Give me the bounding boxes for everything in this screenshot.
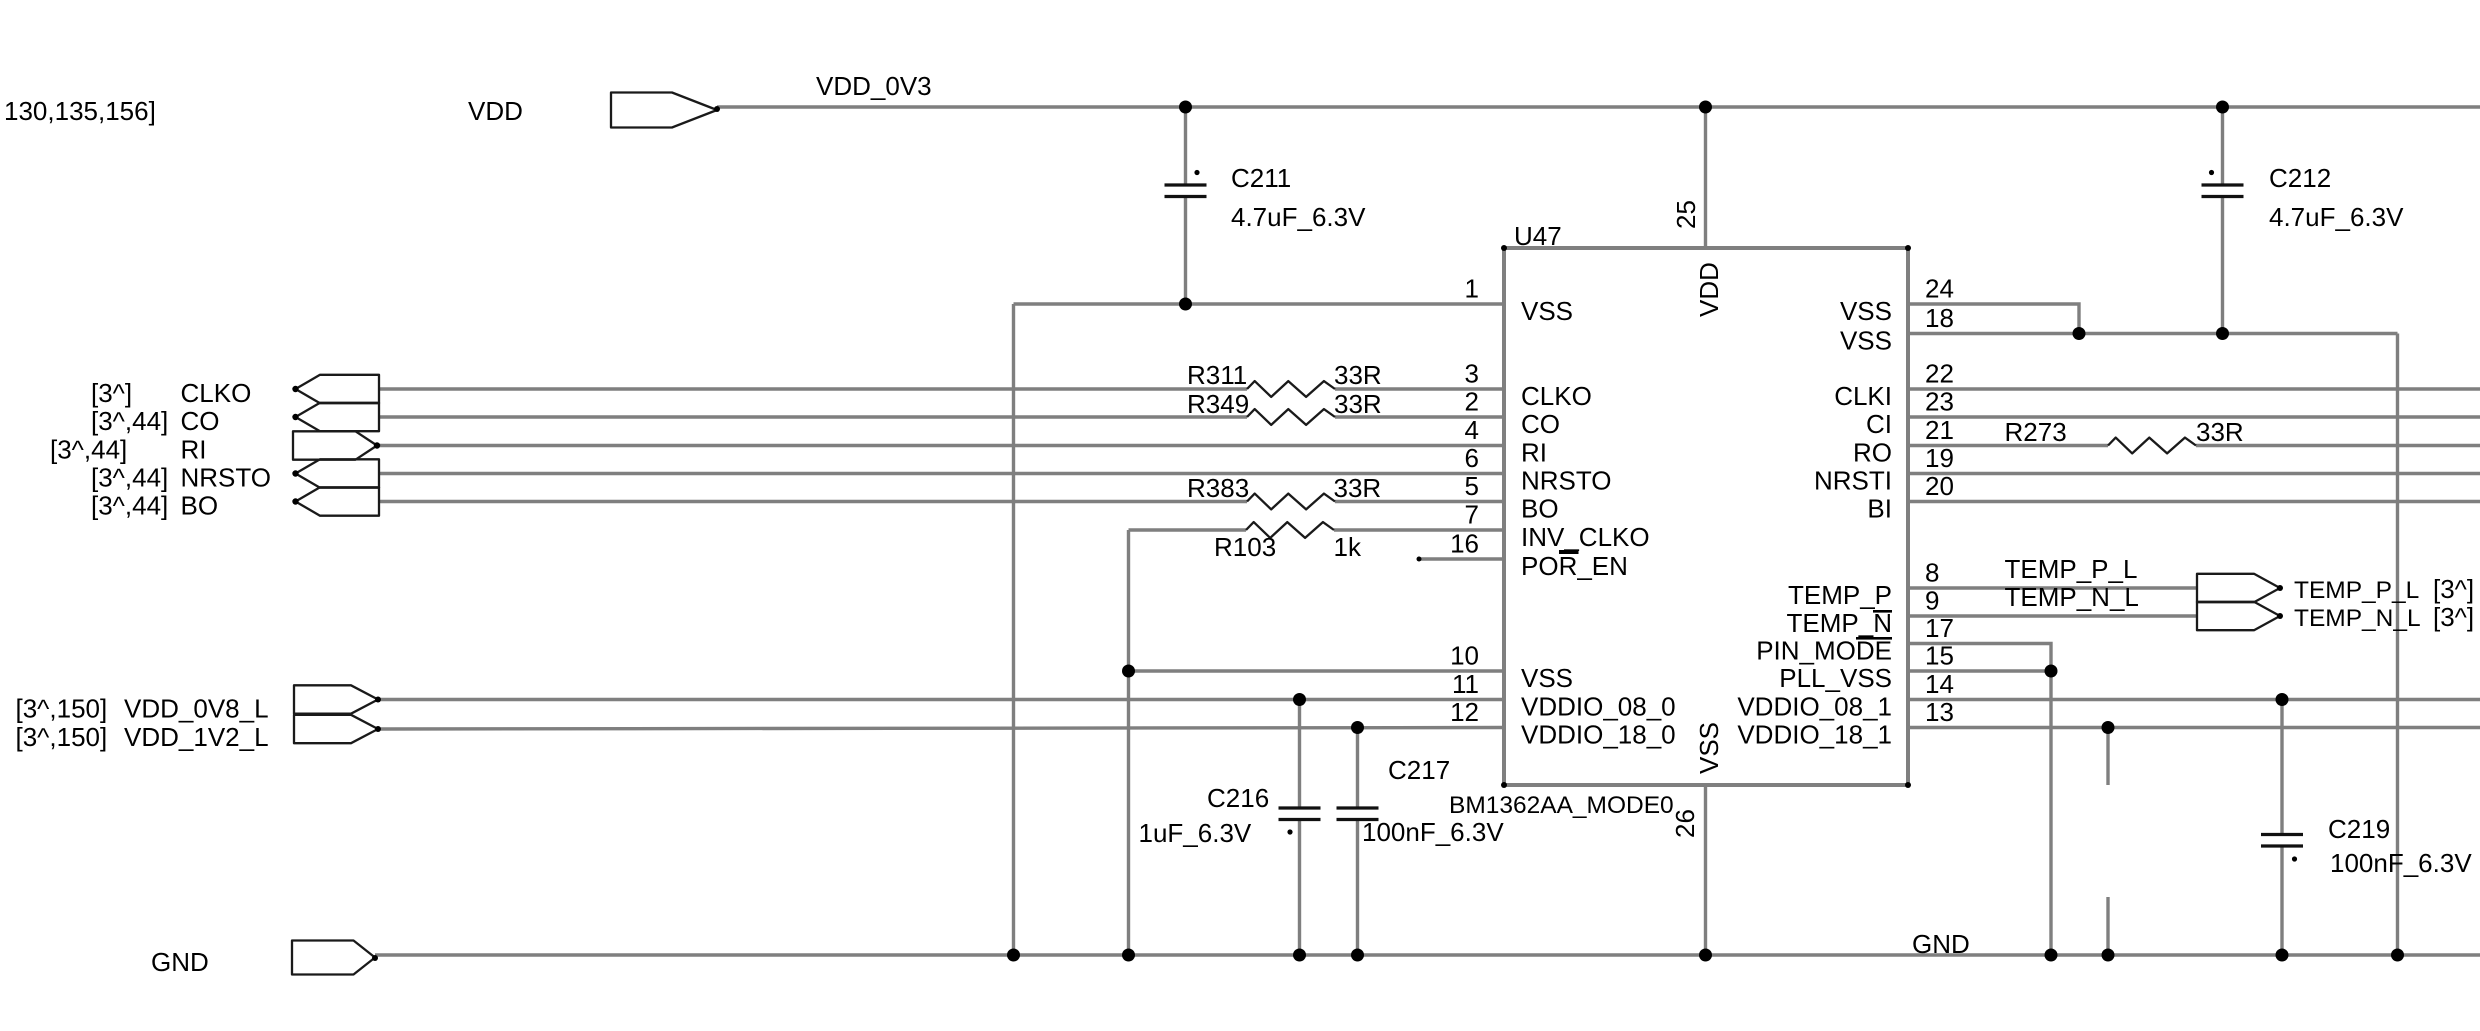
junction GND x2051 [2045, 949, 2058, 962]
polarity dot C211 [1194, 170, 1199, 175]
svg-text:R103: R103 [1214, 532, 1276, 562]
svg-text:33R: 33R [1334, 360, 1382, 390]
wire R103 to pin7 [1334, 528, 1504, 531]
wire VSS vertical from pin1 [1012, 304, 1015, 955]
svg-text:20: 20 [1925, 471, 1954, 501]
overline PIN_MODE DE [1856, 637, 1892, 640]
wire R311 to pin3 [1335, 387, 1504, 390]
svg-text:18: 18 [1925, 303, 1954, 333]
svg-text:5: 5 [1465, 471, 1479, 501]
svg-text:BI: BI [1867, 494, 1892, 524]
junction GND x2108 [2102, 949, 2115, 962]
junction C212 bottom [2216, 327, 2229, 340]
wire VDD_0V8_L to pin11 [378, 698, 1504, 701]
svg-text:VDD_0V3: VDD_0V3 [816, 71, 932, 101]
svg-text:VDDIO_18_1: VDDIO_18_1 [1737, 720, 1892, 750]
port TEMP_N_L arrow [2197, 602, 2280, 630]
port CLKO arrow [296, 375, 380, 403]
junction C212 top [2216, 101, 2229, 114]
junction C217 top [1351, 721, 1364, 734]
svg-text:RI: RI [181, 435, 207, 465]
tip dot TEMP_N_L [2277, 613, 2283, 619]
wire pin13 VDDIO_18_1 [1908, 726, 2480, 729]
svg-text:[3^]: [3^] [91, 378, 132, 408]
resistor R311 [1247, 381, 1335, 397]
junction GND C217 [1351, 949, 1364, 962]
svg-text:TEMP_N_L: TEMP_N_L [2005, 582, 2139, 612]
svg-text:TEMP_P: TEMP_P [1788, 580, 1892, 610]
junction GND x1128 [1122, 949, 1135, 962]
wire CO to R349 [379, 415, 1247, 418]
junction pin24 jog on VSS row [2073, 327, 2086, 340]
capacitor C219 plates [2261, 833, 2303, 836]
svg-text:[3^,150]: [3^,150] [16, 722, 108, 752]
junction GND pin26 [1699, 949, 1712, 962]
svg-text:GND: GND [151, 947, 209, 977]
svg-text:TEMP_N_L: TEMP_N_L [2294, 605, 2421, 632]
wire pin22 CLKI [1908, 387, 2480, 390]
wire VSS right vertical [2396, 334, 2399, 956]
wire pin18 VSS row [1908, 332, 2398, 335]
polarity dot C219 [2292, 856, 2297, 861]
svg-text:NRSTI: NRSTI [1814, 466, 1892, 496]
svg-text:23: 23 [1925, 387, 1954, 417]
svg-text:PLL_VSS: PLL_VSS [1779, 663, 1892, 693]
svg-text:8: 8 [1925, 558, 1939, 588]
svg-text:[3^,44]: [3^,44] [91, 491, 168, 521]
svg-text:10: 10 [1450, 641, 1479, 671]
junction GND right corner [2391, 949, 2404, 962]
svg-text:R383: R383 [1187, 473, 1249, 503]
port GND arrow [292, 941, 375, 975]
wire POR_EN stub pin16 [1418, 557, 1504, 560]
junction C216 top [1293, 693, 1306, 706]
svg-text:VDD: VDD [1694, 262, 1724, 317]
svg-text:24: 24 [1925, 274, 1954, 304]
tip dot GND [372, 955, 378, 961]
svg-text:R273: R273 [2005, 417, 2067, 447]
svg-text:13: 13 [1925, 697, 1954, 727]
svg-text:2: 2 [1465, 387, 1479, 417]
wire C212 body vertical [2221, 107, 2224, 185]
svg-text:C211: C211 [1231, 163, 1291, 193]
wire R383 to pin5 [1335, 500, 1504, 503]
wire C211 body vertical [1184, 107, 1187, 185]
svg-text:VDD_0V8_L: VDD_0V8_L [124, 694, 269, 724]
wire C217 body vertical [1356, 728, 1359, 809]
junction C211 bottom on VSS row [1179, 298, 1192, 311]
svg-text:100nF_6.3V: 100nF_6.3V [2330, 848, 2472, 878]
svg-text:C212: C212 [2269, 163, 2331, 193]
svg-text:VSS: VSS [1694, 722, 1724, 774]
svg-text:[3^,44]: [3^,44] [50, 435, 127, 465]
svg-text:19: 19 [1925, 443, 1954, 473]
port TEMP_P_L arrow [2197, 574, 2280, 602]
wire INV_CLKO corner to R103 [1129, 528, 1247, 531]
wire pin20 BI [1908, 500, 2480, 503]
wire pin1 VSS row [1014, 302, 1505, 305]
wire pin24 VSS jog [1908, 304, 2079, 334]
svg-text:14: 14 [1925, 669, 1954, 699]
svg-text:12: 12 [1450, 697, 1479, 727]
svg-text:CLKO: CLKO [181, 378, 252, 408]
svg-text:VSS: VSS [1840, 326, 1892, 356]
svg-text:VDDIO_08_0: VDDIO_08_0 [1521, 692, 1676, 722]
port VDD arrow [611, 93, 717, 128]
wire C219 body vertical [2280, 700, 2283, 835]
svg-text:TEMP_P_L: TEMP_P_L [2294, 577, 2419, 604]
svg-text:21: 21 [1925, 415, 1954, 445]
tip dot VDD_0V8_L [375, 697, 381, 703]
wire VDD_0V3 net [717, 105, 2480, 108]
port NRSTO arrow [296, 459, 380, 487]
wire RI to pin4 [377, 444, 1504, 447]
svg-text:CLKI: CLKI [1834, 381, 1892, 411]
tip dot BO [292, 498, 298, 504]
wire broken vertical upper [2106, 728, 2109, 786]
wire NRSTO to pin6 [379, 472, 1504, 475]
polarity dot C216 [1287, 829, 1292, 834]
tip dot CO [292, 414, 298, 420]
svg-text:1uF_6.3V: 1uF_6.3V [1139, 818, 1252, 848]
tip dot RI [374, 442, 380, 448]
junction GND x1013 [1007, 949, 1020, 962]
svg-text:RO: RO [1853, 438, 1892, 468]
junction pin17 jog on PLL_VSS row [2045, 665, 2058, 678]
svg-text:NRSTO: NRSTO [181, 463, 272, 493]
svg-text:6: 6 [1465, 443, 1479, 473]
junction GND C219 [2276, 949, 2289, 962]
svg-text:PIN_MODE: PIN_MODE [1756, 636, 1892, 666]
wire VDD_1V2_L to pin12 [378, 728, 1504, 730]
svg-text:[3^,44]: [3^,44] [91, 406, 168, 436]
wire GND net [375, 953, 2480, 956]
svg-text:BM1362AA_MODE0: BM1362AA_MODE0 [1449, 792, 1674, 819]
svg-text:130,135,156]: 130,135,156] [4, 96, 156, 126]
wire C216 body vertical [1298, 700, 1301, 809]
tip dot VDD [714, 106, 720, 112]
svg-text:16: 16 [1450, 529, 1479, 559]
svg-text:3: 3 [1465, 359, 1479, 389]
svg-text:1: 1 [1465, 274, 1479, 304]
junction broken vertical top [2102, 721, 2115, 734]
IC U47 body [1504, 248, 1908, 785]
svg-text:BO: BO [1521, 494, 1559, 524]
tip dot TEMP_P_L [2277, 585, 2283, 591]
svg-text:11: 11 [1452, 669, 1479, 699]
resistor R103 [1246, 522, 1334, 538]
svg-text:C216: C216 [1207, 783, 1269, 813]
overline TEMP_N N [1873, 610, 1892, 613]
svg-text:CLKO: CLKO [1521, 381, 1592, 411]
wire pin23 CI [1908, 415, 2480, 418]
port RI arrow [293, 431, 377, 459]
resistor R383 [1247, 494, 1335, 510]
port VDD_0V8_L arrow [294, 685, 378, 713]
svg-text:VDD_1V2_L: VDD_1V2_L [124, 722, 269, 752]
svg-text:U47: U47 [1514, 221, 1562, 251]
svg-text:[3^]: [3^] [2433, 602, 2474, 632]
svg-text:VSS: VSS [1521, 296, 1573, 326]
svg-text:[3^]: [3^] [2433, 574, 2474, 604]
wire R273 right [2196, 444, 2480, 447]
svg-text:17: 17 [1925, 613, 1954, 643]
svg-text:1k: 1k [1334, 532, 1362, 562]
svg-text:C219: C219 [2328, 814, 2390, 844]
svg-text:CO: CO [181, 406, 220, 436]
svg-text:7: 7 [1465, 500, 1479, 530]
tip dot VDD_1V2_L [375, 726, 381, 732]
wire pin21 RO to R273 [1908, 444, 2108, 447]
wire pin8 TEMP_P [1908, 586, 2197, 589]
svg-text:22: 22 [1925, 359, 1954, 389]
svg-text:4: 4 [1465, 415, 1479, 445]
pin 26 wire (VSS) [1704, 785, 1707, 955]
capacitor C212 plates [2202, 183, 2244, 186]
junction C211 top [1179, 101, 1192, 114]
junction GND C216 [1293, 949, 1306, 962]
port VDD_1V2_L arrow [294, 715, 378, 743]
svg-text:VDDIO_18_0: VDDIO_18_0 [1521, 720, 1676, 750]
svg-text:25: 25 [1671, 200, 1701, 229]
capacitor C217 plates [1337, 806, 1379, 809]
svg-text:33R: 33R [1334, 389, 1382, 419]
wire x2051 vertical to GND [2049, 671, 2052, 955]
svg-text:[3^,150]: [3^,150] [16, 694, 108, 724]
svg-text:33R: 33R [1334, 473, 1382, 503]
svg-text:9: 9 [1925, 586, 1939, 616]
wire pin9 TEMP_N [1908, 614, 2197, 617]
wire R103/VSS vertical [1127, 530, 1130, 955]
svg-text:15: 15 [1925, 641, 1954, 671]
overline POR_EN R [1559, 550, 1579, 554]
svg-text:33R: 33R [2196, 417, 2244, 447]
svg-text:[3^,44]: [3^,44] [91, 463, 168, 493]
svg-text:4.7uF_6.3V: 4.7uF_6.3V [1231, 202, 1366, 232]
resistor R273 [2108, 438, 2196, 454]
port BO arrow [296, 487, 380, 515]
svg-text:VDD: VDD [468, 96, 523, 126]
svg-text:RI: RI [1521, 438, 1547, 468]
wire pin14 VDDIO_08_1 [1908, 698, 2480, 701]
svg-text:R311: R311 [1187, 360, 1247, 390]
wire broken vertical lower [2106, 897, 2109, 955]
svg-text:C217: C217 [1388, 755, 1450, 785]
wire CLKO to R311 [379, 387, 1247, 390]
pin 25 wire (VDD) [1704, 107, 1707, 248]
svg-text:VDDIO_08_1: VDDIO_08_1 [1737, 692, 1892, 722]
capacitor C211 plates [1165, 183, 1207, 186]
svg-text:GND: GND [1912, 929, 1970, 959]
wire pin10 VSS row [1129, 669, 1505, 672]
svg-text:CO: CO [1521, 409, 1560, 439]
port CO arrow [296, 403, 380, 431]
svg-text:TEMP_P_L: TEMP_P_L [2005, 554, 2138, 584]
svg-text:NRSTO: NRSTO [1521, 466, 1612, 496]
wire BO to R383 [379, 500, 1247, 503]
wire pin19 NRSTI [1908, 472, 2480, 475]
tip dot CLKO [292, 386, 298, 392]
resistor R349 [1247, 409, 1335, 425]
svg-text:R349: R349 [1187, 389, 1249, 419]
svg-text:POR_EN: POR_EN [1521, 551, 1628, 581]
svg-text:26: 26 [1670, 809, 1700, 838]
stub end dot pin16 [1417, 557, 1422, 562]
polarity dot C212 [2209, 170, 2214, 175]
capacitor C216 plates [1279, 806, 1321, 809]
svg-text:VSS: VSS [1521, 663, 1573, 693]
wire pin17 PIN_MODE jog [1908, 644, 2051, 672]
wire pin15 PLL_VSS [1908, 669, 2051, 672]
svg-text:100nF_6.3V: 100nF_6.3V [1362, 817, 1504, 847]
svg-text:4.7uF_6.3V: 4.7uF_6.3V [2269, 202, 2404, 232]
wire R349 to pin2 [1335, 415, 1504, 418]
svg-text:BO: BO [181, 491, 219, 521]
junction R103 vertical at pin10 row [1122, 665, 1135, 678]
junction C219 top [2276, 693, 2289, 706]
svg-text:INV_CLKO: INV_CLKO [1521, 522, 1650, 552]
svg-text:CI: CI [1866, 409, 1892, 439]
IC corner marks [1501, 245, 1507, 251]
junction pin25 top [1699, 101, 1712, 114]
tip dot NRSTO [292, 470, 298, 476]
svg-text:VSS: VSS [1840, 296, 1892, 326]
